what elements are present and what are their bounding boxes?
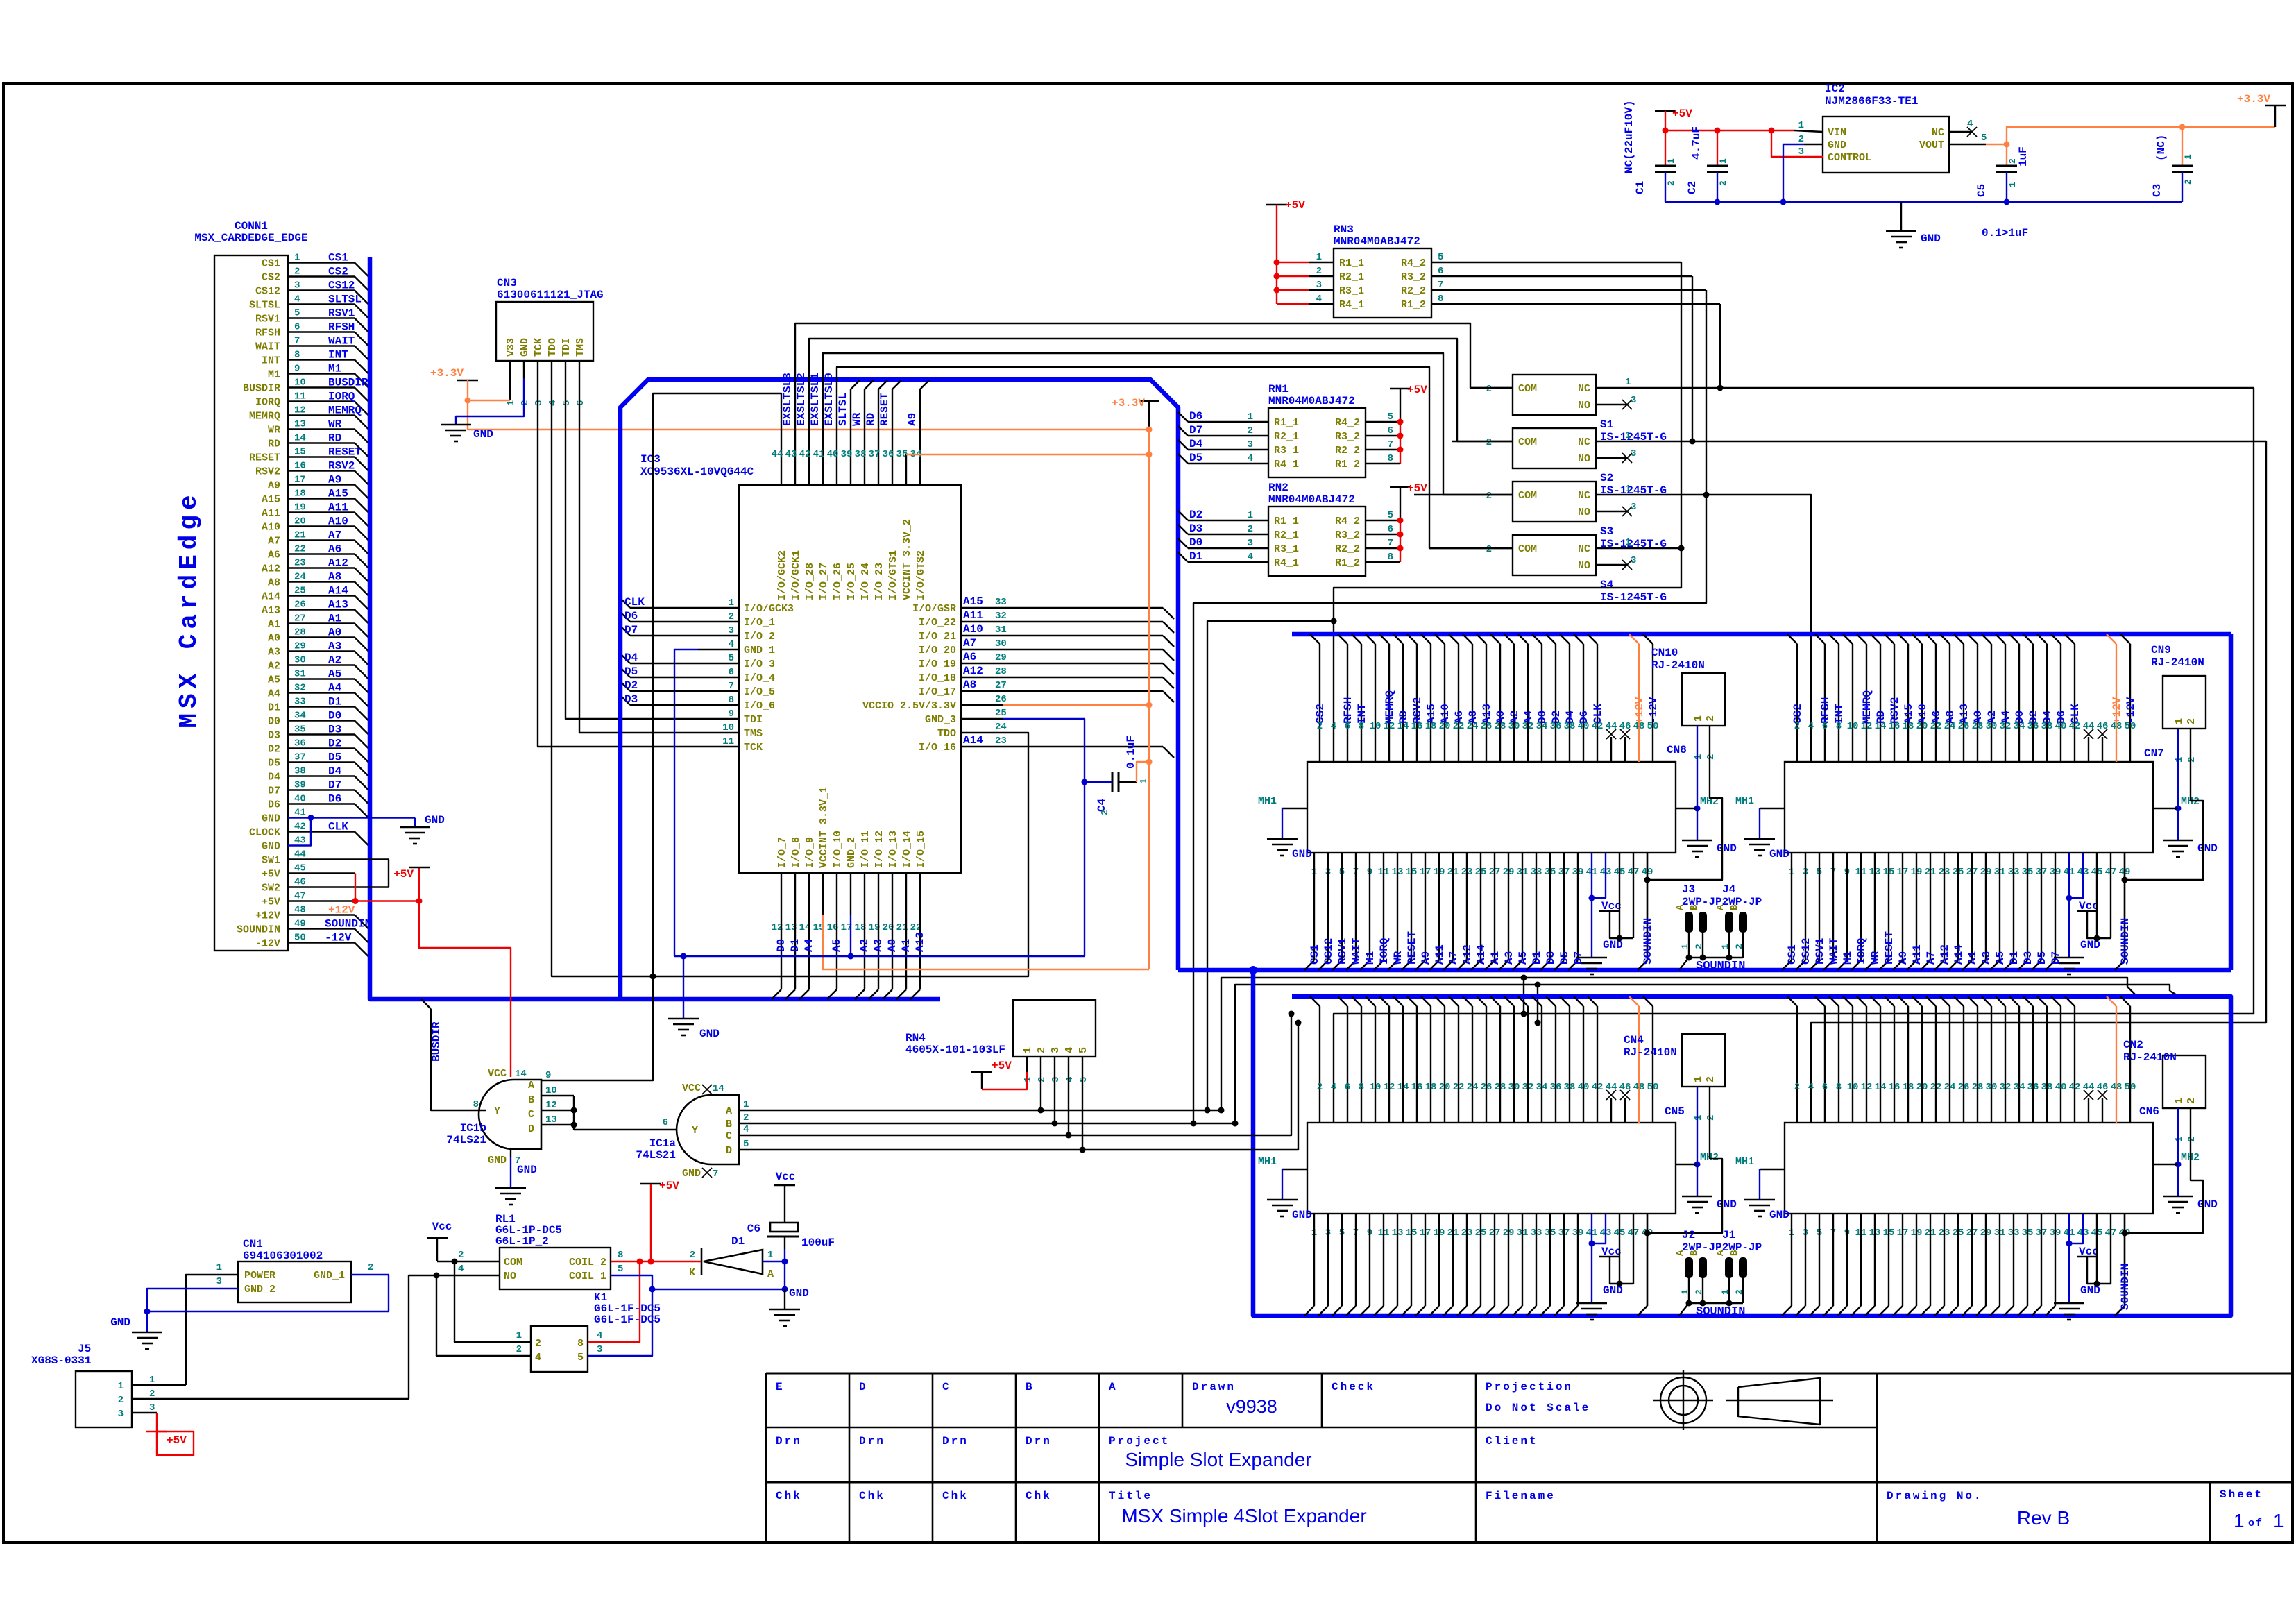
svg-text:16: 16 xyxy=(294,461,306,472)
svg-text:D5: D5 xyxy=(624,665,638,678)
svg-text:6: 6 xyxy=(1822,1082,1828,1093)
bus entry CN5 pin 31 xyxy=(1513,1306,1522,1316)
svg-text:13: 13 xyxy=(294,419,306,430)
svg-text:I/O_20: I/O_20 xyxy=(919,645,956,656)
svg-text:A4: A4 xyxy=(328,682,342,695)
wire EXSLTSL0 net pin40 to S4 COM xyxy=(837,367,1513,548)
svg-text:D2: D2 xyxy=(328,738,341,750)
bus entry CN6 pin 37 xyxy=(2032,1306,2041,1316)
slot connector CN7 body xyxy=(1785,762,2153,853)
svg-text:GND: GND xyxy=(1717,842,1737,855)
CN6 top pin 50 xyxy=(2120,996,2130,1006)
bus entry pin 28 xyxy=(355,638,368,652)
bus entry CN6 pin 17 xyxy=(1893,1306,1903,1316)
svg-text:I/O_10: I/O_10 xyxy=(832,831,844,868)
wire RN3 pin 8 down to switch NC row xyxy=(1719,304,1721,388)
CN6 top pin 16 xyxy=(1885,996,1894,1006)
bus entry pin 29 xyxy=(355,652,368,665)
svg-text:34: 34 xyxy=(2014,721,2025,732)
ground symbol CN4 pin1 xyxy=(1682,1196,1712,1198)
svg-text:42: 42 xyxy=(1592,1082,1604,1093)
bus entry IC3 pin 13 xyxy=(785,989,795,999)
svg-text:17: 17 xyxy=(294,475,306,486)
bus entry CN8 pin 7 xyxy=(1346,960,1356,970)
svg-text:3: 3 xyxy=(1248,538,1253,549)
svg-text:A12: A12 xyxy=(328,557,348,570)
CN6 pin43 Vcc wire xyxy=(2069,1214,2083,1243)
bus entry CN6 pin 29 xyxy=(1976,1306,1986,1316)
svg-text:46: 46 xyxy=(1619,721,1631,732)
svg-text:32: 32 xyxy=(995,611,1007,622)
svg-text:SOUNDIN: SOUNDIN xyxy=(1642,918,1654,965)
bus entry CN7 pin 27 xyxy=(1962,960,1972,970)
wire S1 NC net to CN5 pin4 xyxy=(1334,388,2254,1123)
svg-text:GND: GND xyxy=(1769,848,1789,860)
svg-text:38: 38 xyxy=(1564,1082,1576,1093)
svg-text:40: 40 xyxy=(2055,721,2067,732)
bus entry CN6 pin 49 xyxy=(2115,1306,2125,1316)
svg-text:I/O_24: I/O_24 xyxy=(860,563,871,600)
svg-text:Simple Slot Expander: Simple Slot Expander xyxy=(1125,1449,1311,1470)
wire pin43 GND join xyxy=(288,818,311,846)
slot connector CN5 body xyxy=(1307,1123,1676,1214)
svg-text:+3.3V: +3.3V xyxy=(430,367,464,380)
svg-text:I/O_27: I/O_27 xyxy=(818,563,830,600)
svg-text:30: 30 xyxy=(1986,1082,1998,1093)
wire IC3 right A11 to bus xyxy=(1003,621,1163,622)
wire +3.3V CN3 pin1 xyxy=(509,378,511,400)
svg-text:NC: NC xyxy=(1578,383,1590,395)
svg-text:Projection: Projection xyxy=(1486,1381,1573,1393)
svg-text:A: A xyxy=(1715,1250,1726,1256)
bus entry pin 1 xyxy=(355,263,368,277)
ground symbol CN7 pin41 xyxy=(2054,957,2084,959)
svg-text:A14: A14 xyxy=(328,585,348,597)
RN2 pin 1 D2 xyxy=(1178,511,1188,520)
wire +5V pins 45-47 xyxy=(288,872,355,874)
svg-text:D5: D5 xyxy=(1558,951,1571,965)
bus entry pin 23 xyxy=(355,568,368,582)
svg-text:+5V: +5V xyxy=(1285,199,1305,212)
svg-text:1: 1 xyxy=(1139,779,1150,784)
svg-text:2: 2 xyxy=(1705,715,1717,722)
wire mid horizontal net lower xyxy=(1235,985,2170,1123)
svg-text:4: 4 xyxy=(547,400,559,406)
ground symbol below IC3 xyxy=(668,1018,699,1020)
CN8 pin41 GND wire xyxy=(1591,853,1592,958)
CN5 top pin 2 xyxy=(1310,996,1320,1006)
wire IC1a input C net xyxy=(739,1014,1291,1135)
svg-text:0.1uF: 0.1uF xyxy=(1125,736,1137,769)
wire IC1a input B net xyxy=(739,1123,1235,1124)
svg-text:SLTSL: SLTSL xyxy=(328,294,362,306)
CN7 top pin 26 xyxy=(1954,634,1964,644)
svg-text:10: 10 xyxy=(1370,1082,1381,1093)
svg-text:R4_1: R4_1 xyxy=(1274,459,1299,470)
RN1 pin 2 D7 xyxy=(1178,426,1188,436)
svg-text:33: 33 xyxy=(995,597,1007,608)
svg-text:I/O_14: I/O_14 xyxy=(901,831,913,868)
bus entry SLTSL xyxy=(851,380,860,389)
svg-text:1: 1 xyxy=(2174,1137,2185,1142)
svg-text:Chk: Chk xyxy=(776,1490,802,1502)
svg-text:3: 3 xyxy=(1051,1077,1062,1082)
power +3.3V symbol near CN3 xyxy=(457,380,478,382)
svg-text:5: 5 xyxy=(561,400,572,406)
IC3 left pin 8 I/O_6 xyxy=(698,704,739,706)
gate IC1b 74LS21 xyxy=(479,1080,541,1149)
svg-text:A: A xyxy=(767,1268,774,1280)
CN8 pins 45 47 wires xyxy=(1619,853,1620,938)
CN8 top pin 10 xyxy=(1366,634,1375,644)
CN6 top pin 34 xyxy=(2009,996,2019,1006)
svg-text:A: A xyxy=(1715,904,1726,910)
svg-text:RD: RD xyxy=(268,439,280,450)
svg-text:D3: D3 xyxy=(328,724,341,736)
svg-text:-12V: -12V xyxy=(255,938,280,950)
svg-text:7: 7 xyxy=(1388,439,1393,450)
bus entry IC3 pin 18 xyxy=(855,989,865,999)
svg-text:XG8S-0331: XG8S-0331 xyxy=(31,1354,91,1367)
svg-text:D1: D1 xyxy=(2008,951,2021,965)
RN1 pin 8 xyxy=(1366,463,1400,464)
svg-text:GND: GND xyxy=(262,813,280,825)
svg-text:J2: J2 xyxy=(1682,1229,1695,1241)
svg-text:I/O_4: I/O_4 xyxy=(744,672,775,684)
svg-text:NC: NC xyxy=(1578,436,1590,448)
bus entry pin 36 xyxy=(355,749,368,763)
bus entry jumper SOUNDIN xyxy=(1679,1303,1689,1316)
bus entry pin 26 xyxy=(355,610,368,624)
CN5 pin43 Vcc wire xyxy=(1592,1214,1606,1243)
wire IC3 right A12 to bus xyxy=(1003,677,1163,678)
svg-text:I/O/GSR: I/O/GSR xyxy=(912,603,956,615)
bus entry CN7 pin 15 xyxy=(1879,960,1889,970)
svg-text:A2: A2 xyxy=(858,939,871,952)
svg-text:R3_2: R3_2 xyxy=(1335,529,1360,541)
jumper pin J4 A xyxy=(1725,912,1733,933)
bus entry CN7 pin 3 xyxy=(1796,960,1805,970)
svg-text:I/O_23: I/O_23 xyxy=(874,563,885,600)
svg-text:D: D xyxy=(528,1123,534,1135)
bus entry CN7 pin 39 xyxy=(2046,960,2055,970)
svg-text:3: 3 xyxy=(1631,395,1636,406)
CN7 top pin 34 xyxy=(2009,634,2019,644)
CN8 top pin 18 xyxy=(1421,634,1431,644)
svg-text:A9: A9 xyxy=(1420,951,1432,965)
svg-text:26: 26 xyxy=(1481,721,1493,732)
svg-text:MH1: MH1 xyxy=(1735,795,1754,807)
svg-text:D2: D2 xyxy=(624,679,638,692)
svg-text:2: 2 xyxy=(1718,180,1728,186)
IC3 right pin 27 I/O_17 xyxy=(961,690,1003,692)
wire RL1 COIL_2 to D1 K xyxy=(611,1261,679,1262)
svg-text:A11: A11 xyxy=(1911,944,1923,965)
svg-text:24: 24 xyxy=(1944,1082,1956,1093)
IC3 top pin 41 I/O_27 xyxy=(822,444,824,485)
svg-text:Y: Y xyxy=(494,1105,500,1117)
RN2 pin 3 D0 xyxy=(1178,538,1188,548)
bus entry CN7 pin 17 xyxy=(1893,960,1903,970)
svg-text:NC: NC xyxy=(1578,543,1590,555)
svg-text:I/O_1: I/O_1 xyxy=(744,617,775,629)
svg-text:I/O/GCK3: I/O/GCK3 xyxy=(744,603,794,615)
svg-text:A5: A5 xyxy=(328,668,341,681)
power Vcc symbol CN8 xyxy=(1599,910,1620,912)
power +5V symbol J5 xyxy=(146,1431,167,1433)
svg-text:D1: D1 xyxy=(328,696,341,708)
svg-text:24: 24 xyxy=(1944,721,1956,732)
svg-text:TDO: TDO xyxy=(937,728,956,740)
bus entry CN7 pin 7 xyxy=(1823,960,1833,970)
CN7 top pin 8 xyxy=(1829,634,1839,644)
svg-text:MH1: MH1 xyxy=(1258,1156,1277,1168)
bus entry CN8 pin 11 xyxy=(1374,960,1384,970)
wire IC1a input D net xyxy=(739,1023,1298,1150)
svg-text:1: 1 xyxy=(1666,158,1676,164)
wire RN3 pin 5 down to switch NC row xyxy=(1681,262,1682,548)
svg-text:A: A xyxy=(1109,1381,1118,1393)
svg-text:9: 9 xyxy=(545,1070,551,1081)
svg-text:BUSDIR: BUSDIR xyxy=(328,377,368,389)
svg-text:22: 22 xyxy=(1453,1082,1465,1093)
wire RN4 pin1 +5V xyxy=(982,1072,1027,1089)
svg-text:I/O_2: I/O_2 xyxy=(744,631,775,643)
power Vcc symbol CN7 xyxy=(2077,910,2098,912)
svg-text:D4: D4 xyxy=(1189,438,1203,450)
CN8 top pin 46 xyxy=(1624,737,1626,762)
CN6 top pin 18 xyxy=(1898,996,1908,1006)
svg-text:16: 16 xyxy=(1411,721,1423,732)
bus entry CN6 pin 31 xyxy=(1990,1306,2000,1316)
IC3 bottom pin 17 GND_2 xyxy=(850,873,851,915)
svg-text:R2_1: R2_1 xyxy=(1274,431,1299,443)
svg-text:NO: NO xyxy=(1578,507,1590,518)
IC3 bottom pin 16 I/O_10 xyxy=(836,873,837,915)
wire IC3 right A7 to bus xyxy=(1003,649,1163,650)
svg-text:CLK: CLK xyxy=(328,821,348,833)
svg-text:3: 3 xyxy=(1631,555,1636,566)
svg-text:A14: A14 xyxy=(262,591,280,603)
svg-text:6: 6 xyxy=(294,322,300,333)
bus entry pin 9 xyxy=(355,374,368,388)
svg-text:1: 1 xyxy=(1625,377,1631,388)
wire RN4 pin 4 pulldown xyxy=(1068,1072,1069,1135)
IC3 right pin 23 I/O_16 xyxy=(961,746,1003,747)
wire RESET into IC3 loop bus xyxy=(892,389,893,444)
svg-text:10: 10 xyxy=(545,1085,557,1096)
svg-text:MEMRQ: MEMRQ xyxy=(1384,690,1396,724)
svg-text:1: 1 xyxy=(149,1375,155,1386)
bus entry CN8 pin 29 xyxy=(1499,960,1508,970)
svg-text:CONN1: CONN1 xyxy=(235,220,268,232)
svg-text:RFSH: RFSH xyxy=(255,328,280,339)
IC3 right pin 24 TDO xyxy=(961,732,1003,733)
svg-text:A1: A1 xyxy=(1966,951,1979,965)
bus entry CN5 pin 27 xyxy=(1485,1306,1495,1316)
svg-text:R3_2: R3_2 xyxy=(1401,271,1426,283)
bus entry CN5 pin 23 xyxy=(1457,1306,1467,1316)
svg-text:D2: D2 xyxy=(1189,509,1202,521)
CN5 top pin 32 xyxy=(1518,996,1528,1006)
svg-text:+3.3V: +3.3V xyxy=(1112,397,1145,409)
bus entry pin 40 xyxy=(355,804,368,818)
bus entry CN7 pin 11 xyxy=(1851,960,1861,970)
svg-text:4: 4 xyxy=(1331,1082,1336,1093)
svg-text:D0: D0 xyxy=(1189,536,1202,549)
svg-text:5: 5 xyxy=(729,653,734,664)
svg-text:A3: A3 xyxy=(268,647,280,658)
svg-text:R4_2: R4_2 xyxy=(1335,516,1360,527)
svg-text:M1: M1 xyxy=(1364,951,1377,965)
svg-text:37: 37 xyxy=(869,449,881,460)
svg-text:A7: A7 xyxy=(268,536,280,547)
bus entry pin 38 xyxy=(355,776,368,790)
bus entry CN8 pin 13 xyxy=(1388,960,1397,970)
svg-text:20: 20 xyxy=(1916,1082,1928,1093)
svg-text:GND: GND xyxy=(789,1287,809,1300)
svg-text:48: 48 xyxy=(1633,721,1645,732)
svg-text:EXSLTSL2: EXSLTSL2 xyxy=(795,373,808,426)
svg-text:GND_2: GND_2 xyxy=(244,1284,275,1295)
svg-text:32: 32 xyxy=(1522,1082,1534,1093)
wire RD into IC3 loop bus xyxy=(878,389,879,444)
svg-text:7: 7 xyxy=(1438,280,1443,291)
svg-text:-12V: -12V xyxy=(325,932,352,944)
RN2 pin 5 xyxy=(1366,520,1400,521)
svg-text:NO: NO xyxy=(1578,453,1590,465)
svg-text:Filename: Filename xyxy=(1486,1490,1556,1502)
svg-text:5: 5 xyxy=(1388,411,1393,423)
CN6 top pin 8 xyxy=(1829,996,1839,1006)
svg-text:CN3: CN3 xyxy=(497,277,517,289)
bus entry pin 31 xyxy=(355,679,368,693)
svg-text:RD: RD xyxy=(328,432,341,445)
svg-text:50: 50 xyxy=(2125,721,2136,732)
wire D1 anode to C6 column xyxy=(763,1261,785,1262)
svg-text:36: 36 xyxy=(2027,1082,2039,1093)
CN6 top pin 42 xyxy=(2065,996,2075,1006)
svg-text:A5: A5 xyxy=(1994,951,2007,965)
CN5 top pin 42 xyxy=(1588,996,1597,1006)
bus entry CN7 pin 23 xyxy=(1934,960,1944,970)
svg-text:1: 1 xyxy=(1693,754,1704,760)
capacitor C1 NC(22uF10V) xyxy=(1665,130,1666,166)
svg-text:A14: A14 xyxy=(963,734,983,747)
svg-text:1: 1 xyxy=(2173,718,2185,724)
svg-text:G6L-1P_2: G6L-1P_2 xyxy=(495,1235,549,1248)
svg-text:+5V: +5V xyxy=(167,1434,187,1447)
svg-text:S3: S3 xyxy=(1600,525,1613,538)
bus entry CN8 pin 19 xyxy=(1429,960,1439,970)
svg-text:1: 1 xyxy=(1718,158,1728,164)
svg-text:GND: GND xyxy=(425,814,445,826)
svg-text:12: 12 xyxy=(294,405,306,416)
wire VCCIO pin26 +3.3V xyxy=(1003,704,1149,706)
svg-text:12: 12 xyxy=(1384,721,1395,732)
ground symbol CN9 pin1 xyxy=(2163,840,2193,842)
IC3 left pin 6 I/O_4 xyxy=(698,677,739,678)
svg-text:M1: M1 xyxy=(1842,951,1854,965)
wire +3.3V vertical rail xyxy=(1148,401,1150,430)
switch S2 NO stub xyxy=(1596,457,1627,459)
svg-text:38: 38 xyxy=(294,766,306,777)
bus entry pin 5 xyxy=(355,318,368,332)
CN7 top pin 44 xyxy=(2088,737,2089,762)
svg-text:8: 8 xyxy=(1438,294,1443,305)
svg-text:Check: Check xyxy=(1332,1381,1375,1393)
bus entry CN8 pin 3 xyxy=(1318,960,1328,970)
svg-text:10: 10 xyxy=(1847,721,1859,732)
RN1 pin 6 xyxy=(1366,435,1400,436)
svg-text:39: 39 xyxy=(294,780,306,791)
svg-text:R1_2: R1_2 xyxy=(1335,557,1360,569)
svg-text:A7: A7 xyxy=(963,637,976,649)
CN5 top pin 26 xyxy=(1477,996,1486,1006)
bus entry CN5 pin 49 xyxy=(1638,1306,1647,1316)
projection symbol circle xyxy=(1660,1377,1706,1423)
svg-text:I/O_22: I/O_22 xyxy=(919,617,956,629)
svg-text:2: 2 xyxy=(118,1395,124,1406)
svg-text:GND: GND xyxy=(110,1316,130,1329)
bus entry CN5 pin 7 xyxy=(1346,1306,1356,1316)
svg-text:2: 2 xyxy=(458,1250,464,1261)
svg-text:40: 40 xyxy=(2055,1082,2067,1093)
svg-text:Y: Y xyxy=(692,1125,698,1137)
CN2 MH2 stub xyxy=(2153,1164,2178,1165)
bus entry CN7 pin 13 xyxy=(1865,960,1875,970)
svg-text:4: 4 xyxy=(1248,552,1253,563)
svg-text:+5V: +5V xyxy=(262,869,280,881)
svg-text:24: 24 xyxy=(1467,721,1479,732)
bus entry pin 30 xyxy=(355,665,368,679)
capacitor C4 0.1uF xyxy=(1112,772,1114,792)
svg-text:A12: A12 xyxy=(963,665,983,677)
svg-text:D4: D4 xyxy=(328,765,342,778)
CN7 top pin 18 xyxy=(1898,634,1908,644)
svg-text:A1: A1 xyxy=(1489,951,1502,965)
CN7 top pin 50 xyxy=(2120,634,2130,644)
svg-text:3: 3 xyxy=(1631,448,1636,459)
bus entry CN5 pin 5 xyxy=(1332,1306,1342,1316)
bus entry CN7 pin 19 xyxy=(1907,960,1916,970)
svg-text:A6: A6 xyxy=(268,550,280,561)
wire J5 pin2 to RL1 NO xyxy=(132,1398,409,1400)
svg-text:MEMRQ: MEMRQ xyxy=(328,405,362,417)
svg-text:VOUT: VOUT xyxy=(1919,139,1944,151)
bus entry CN5 pin 39 xyxy=(1568,1306,1578,1316)
CN6 top pin 36 xyxy=(2023,996,2033,1006)
wire VOUT +3.3V xyxy=(1949,144,1986,145)
svg-text:D3: D3 xyxy=(1545,951,1557,965)
svg-text:7: 7 xyxy=(294,336,300,347)
svg-text:R3_2: R3_2 xyxy=(1335,431,1360,443)
svg-text:4: 4 xyxy=(1064,1077,1075,1082)
svg-text:COM: COM xyxy=(1518,383,1537,395)
svg-text:CN6: CN6 xyxy=(2139,1105,2159,1118)
switch S3 COM wire xyxy=(1414,494,1513,495)
svg-text:7: 7 xyxy=(1388,538,1393,549)
wire CN1 GND_1 xyxy=(147,1275,389,1332)
bus loop around IC3 xyxy=(620,380,1178,999)
CN7 top pin 48 xyxy=(2107,634,2116,644)
svg-text:2: 2 xyxy=(729,611,734,622)
wire IC3 pin44 to IC1b pin9 net xyxy=(541,393,781,1080)
svg-text:A5: A5 xyxy=(268,674,280,686)
svg-text:C1: C1 xyxy=(1634,181,1647,194)
svg-text:Drawing No.: Drawing No. xyxy=(1887,1490,1983,1502)
svg-text:TDI: TDI xyxy=(744,714,763,726)
